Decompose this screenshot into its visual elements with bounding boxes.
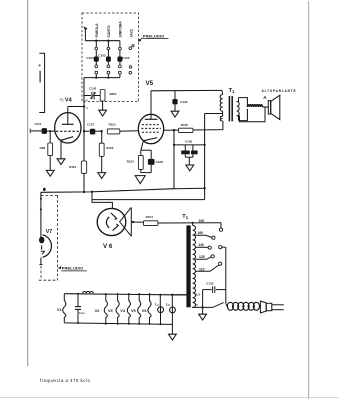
wire mains selector xyxy=(225,247,227,303)
page border right xyxy=(308,1,310,399)
svg-text:R125: R125 xyxy=(181,123,189,127)
V6 inner electrodes xyxy=(106,213,118,231)
svg-text:140: 140 xyxy=(198,243,204,247)
svg-text:C135: C135 xyxy=(206,281,214,285)
tone selector dashed box xyxy=(82,13,139,102)
svg-text:R120: R120 xyxy=(106,146,114,150)
capacitor C130 (filter) xyxy=(181,140,197,165)
lower contacts C105 xyxy=(119,62,122,78)
V4 anode xyxy=(62,107,74,125)
heater V6 xyxy=(142,293,151,325)
svg-text:T1: T1 xyxy=(182,214,188,220)
ground below grid leak xyxy=(46,170,54,176)
capacitor C103 xyxy=(98,54,110,62)
svg-text:R122: R122 xyxy=(127,160,135,164)
switch contact column C105 xyxy=(119,41,122,57)
wire speaker return xyxy=(240,107,266,122)
speaker voice coil xyxy=(247,105,268,107)
svg-text:JAZZ: JAZZ xyxy=(130,29,134,37)
capacitor C104 xyxy=(86,56,98,62)
wire V6 target xyxy=(131,221,143,223)
svg-text:frequenza a 470 kc/s.: frequenza a 470 kc/s. xyxy=(40,378,92,383)
PRELUDIO top arrow+label xyxy=(138,33,168,42)
pilot lamp L2 xyxy=(166,295,175,325)
switch wiper arrow xyxy=(83,26,87,40)
ground below C129 xyxy=(171,111,179,117)
V4 cathode xyxy=(61,137,73,159)
power transformer winding xyxy=(192,222,196,308)
heater line choke xyxy=(83,292,94,294)
tap 140 + selector xyxy=(195,243,226,249)
wire V6 top lead xyxy=(92,200,112,209)
svg-text:V2: V2 xyxy=(95,309,100,313)
svg-text:PRELUDIO: PRELUDIO xyxy=(62,266,84,271)
heater V1 xyxy=(57,294,66,323)
svg-text:C127: C127 xyxy=(87,123,95,127)
PRELUDIO bottom label xyxy=(58,266,87,271)
tap 110 xyxy=(195,262,222,271)
V7 dashed enclosure xyxy=(39,196,58,281)
wire V5 screen xyxy=(163,129,178,131)
V4 grid xyxy=(56,130,80,132)
resistor 10M grid leak xyxy=(39,130,52,170)
svg-text:V3: V3 xyxy=(108,309,113,313)
wire V6 feed xyxy=(92,192,205,200)
svg-text:CANTO: CANTO xyxy=(107,25,111,37)
svg-text:C130: C130 xyxy=(185,140,193,144)
mains plug xyxy=(260,301,283,313)
capacitor C111 xyxy=(30,122,55,134)
wire switch bus lower xyxy=(84,76,120,78)
svg-text:PAROLA: PAROLA xyxy=(95,23,99,38)
heater V2 xyxy=(95,293,108,325)
svg-text:L1: L1 xyxy=(155,302,159,307)
wire node line x84 xyxy=(83,78,85,161)
resistor R121 xyxy=(107,123,120,134)
ground below V5 cathode xyxy=(135,176,145,184)
T1 secondary winding xyxy=(237,98,239,121)
wire V5 plate rail xyxy=(151,89,222,91)
svg-text:C103: C103 xyxy=(98,54,106,58)
svg-text:220: 220 xyxy=(199,219,205,223)
triode V4 envelope xyxy=(55,113,81,143)
svg-text:ALTOPARLANTE: ALTOPARLANTE xyxy=(262,89,297,93)
pilot lamp L1 xyxy=(155,294,163,326)
svg-text:V6: V6 xyxy=(142,309,147,313)
V5 cathode xyxy=(141,138,157,151)
svg-text:V7: V7 xyxy=(46,229,53,235)
lower contacts C103 xyxy=(107,62,110,78)
svg-text:SINFONIA: SINFONIA xyxy=(119,21,123,38)
svg-text:125: 125 xyxy=(199,255,205,259)
ground below V4 cathode xyxy=(57,159,65,165)
switch contact column C104 xyxy=(95,41,98,57)
heater V5 xyxy=(131,293,141,325)
magic eye V6 envelope xyxy=(97,208,126,235)
svg-text:R124: R124 xyxy=(146,215,154,219)
ground heater return xyxy=(169,324,177,340)
T1 core xyxy=(229,96,232,121)
svg-text:T1: T1 xyxy=(229,88,235,94)
V5 anode xyxy=(145,91,158,120)
ground below R201 xyxy=(99,110,107,116)
page border left xyxy=(27,0,29,366)
T1 primary winding xyxy=(220,90,222,121)
V6 deflector triangle xyxy=(120,207,132,236)
resistor R124 xyxy=(144,215,158,225)
lower contacts C104 xyxy=(95,62,98,78)
wire heater rail top xyxy=(64,294,186,296)
wire heater rail bottom xyxy=(64,323,172,325)
svg-text:C105: C105 xyxy=(122,56,130,60)
mains switch xyxy=(213,303,224,308)
capacitor C129 xyxy=(172,91,187,111)
ground below mains xyxy=(199,307,207,320)
wire rail to V7 xyxy=(40,192,42,238)
ground below R120 xyxy=(98,173,106,179)
svg-text:V 6: V 6 xyxy=(103,243,113,250)
svg-text:R201: R201 xyxy=(110,92,118,96)
svg-text:V5: V5 xyxy=(146,80,154,87)
resistor R125 xyxy=(179,123,194,132)
wire B+ vertical xyxy=(203,114,205,200)
tap 220 xyxy=(199,219,223,231)
tap 160 xyxy=(195,231,215,239)
capacitor C105 xyxy=(117,56,130,62)
speaker cone xyxy=(268,95,280,119)
speaker magnet/field xyxy=(239,98,248,121)
JAZZ open contacts xyxy=(129,45,134,74)
svg-text:V1: V1 xyxy=(57,308,62,312)
heater V3 xyxy=(108,293,119,325)
resistor R119 plate load xyxy=(69,161,87,193)
rectifier V7 (partial) xyxy=(39,235,51,265)
svg-text:R121: R121 xyxy=(109,123,117,127)
svg-text:C102: C102 xyxy=(89,86,97,90)
V5 grids xyxy=(141,125,161,133)
wire B+ tap of T1 xyxy=(205,113,223,115)
svg-text:PRELUDIO: PRELUDIO xyxy=(143,33,165,38)
capacitor across V1 heater xyxy=(75,293,85,324)
pentode V5 envelope xyxy=(138,114,163,143)
svg-text:L2: L2 xyxy=(166,302,170,307)
page border bottom xyxy=(0,397,339,399)
wire switch bus upper xyxy=(85,40,120,42)
wire V4 anode to node xyxy=(68,105,85,107)
wire filter cap bus xyxy=(174,144,206,146)
wire main B+ rail xyxy=(41,188,174,193)
heater V4 xyxy=(120,293,130,325)
svg-text:C129: C129 xyxy=(180,100,188,104)
resistor R122 xyxy=(127,150,144,172)
tap 6,3 heater xyxy=(172,292,200,296)
switch contact column C103 xyxy=(107,41,110,57)
svg-text:R119: R119 xyxy=(69,165,76,169)
svg-text:C104: C104 xyxy=(86,56,94,60)
capacitor C128 xyxy=(141,150,163,172)
wire rail link xyxy=(174,187,205,189)
pin labels c c xyxy=(86,98,89,110)
power transformer core xyxy=(186,225,190,307)
svg-text:10M: 10M xyxy=(39,146,45,150)
svg-text:6,3: 6,3 xyxy=(196,292,201,296)
resistor R201 xyxy=(94,90,117,111)
mains cord coil xyxy=(226,302,261,310)
wire screen to T1 primary bottom xyxy=(193,121,223,130)
tap 125 xyxy=(195,255,214,260)
winding bottom wire xyxy=(192,303,213,309)
svg-text:C111: C111 xyxy=(35,122,42,126)
resistor R120 xyxy=(99,131,113,172)
wire R124 to 220 tap xyxy=(158,222,221,224)
wire screen node down xyxy=(173,130,175,189)
svg-text:½ V4: ½ V4 xyxy=(60,97,73,104)
capacitor C127 xyxy=(84,123,103,135)
potentiometer P (cut off at left edge) xyxy=(39,53,45,112)
ground below C130 xyxy=(186,165,194,171)
svg-text:C128: C128 xyxy=(156,160,164,164)
wire R121 to V5 grid xyxy=(120,130,139,132)
svg-text:160: 160 xyxy=(197,231,203,235)
capacitor C102 xyxy=(84,86,97,99)
svg-text:V5: V5 xyxy=(131,309,136,313)
capacitor C135 xyxy=(203,281,226,307)
